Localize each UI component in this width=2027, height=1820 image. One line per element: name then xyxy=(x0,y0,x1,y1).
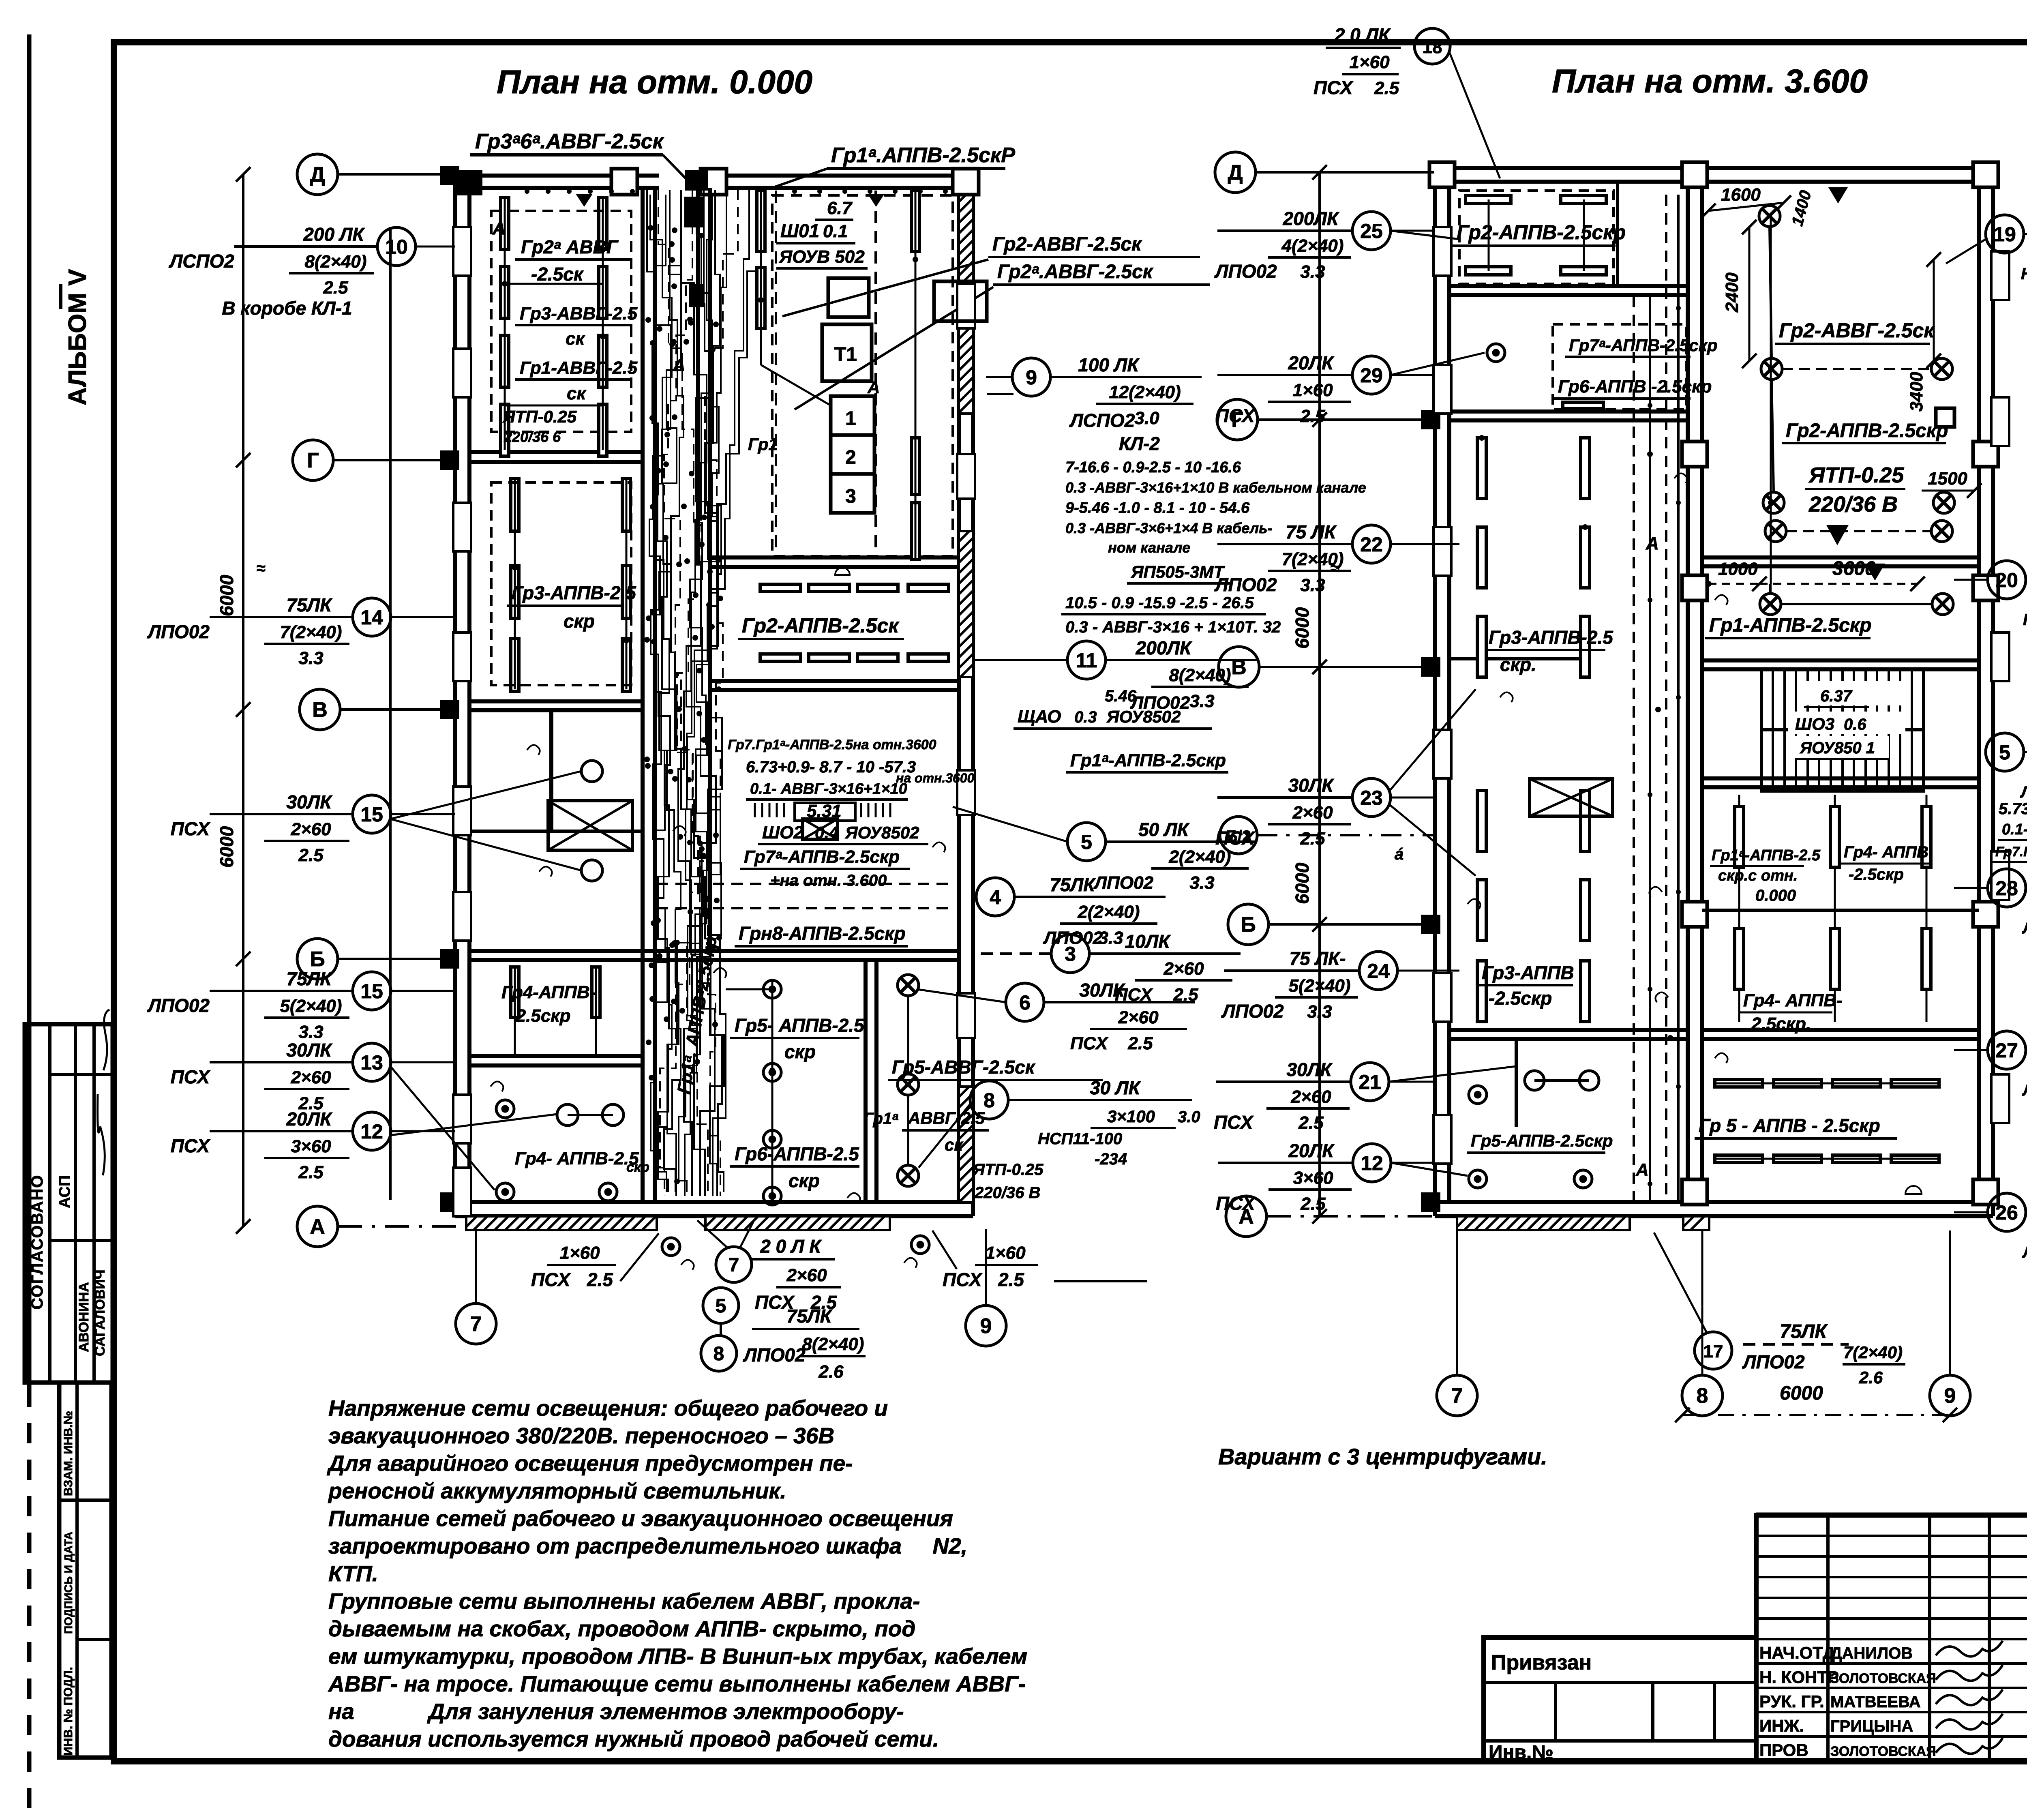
svg-text:А: А xyxy=(867,378,880,397)
plan1 cable drop triangles xyxy=(576,194,593,207)
svg-text:Грн8-АППВ-2.5скр: Грн8-АППВ-2.5скр xyxy=(739,923,906,944)
svg-text:6000: 6000 xyxy=(216,826,237,868)
svg-text:3.3: 3.3 xyxy=(1300,262,1325,282)
svg-text:2.5: 2.5 xyxy=(298,845,324,865)
svg-text:220/36 В: 220/36 В xyxy=(974,1184,1040,1202)
svg-text:75ЛК: 75ЛК xyxy=(286,968,332,989)
svg-text:100 ЛК: 100 ЛК xyxy=(1078,354,1140,375)
plan2 horizontal walls left side xyxy=(1449,284,1688,288)
plan1 right wall hatch xyxy=(959,191,973,414)
left margin line xyxy=(27,34,32,1387)
svg-text:запроектировано от распредел: запроектировано от распределительного шк… xyxy=(328,1533,967,1558)
plan2 left room lamp columns upper xyxy=(1477,438,1486,499)
svg-text:5: 5 xyxy=(1081,831,1092,853)
plan1 bars room row2 xyxy=(760,654,801,661)
svg-text:0.3: 0.3 xyxy=(1074,708,1097,726)
svg-text:7: 7 xyxy=(470,1312,482,1336)
svg-text:НСПИ-100·: НСПИ-100· xyxy=(2023,611,2027,629)
plan1 left dimension line xyxy=(242,174,244,1226)
plan2 callout 26 xyxy=(1988,1193,2026,1231)
svg-text:Гр1-АВВГ-2.5: Гр1-АВВГ-2.5 xyxy=(520,358,638,378)
plan1 bars room row1 xyxy=(760,584,801,592)
svg-text:2(2×40): 2(2×40) xyxy=(1169,847,1231,867)
plan1 dashed distribution lines xyxy=(657,883,949,885)
svg-text:ДАНИЛОВ: ДАНИЛОВ xyxy=(1830,1644,1913,1662)
svg-text:Гр2-АППВ-2.5ск: Гр2-АППВ-2.5ск xyxy=(742,614,900,637)
svg-text:28: 28 xyxy=(1995,877,2018,900)
plan1 outer walls xyxy=(453,176,457,1216)
plan1 room B lamp wires xyxy=(514,478,516,689)
svg-text:3×100: 3×100 xyxy=(1107,1107,1155,1126)
svg-text:11: 11 xyxy=(1076,649,1097,672)
svg-text:ПСХ: ПСХ xyxy=(1215,827,1256,849)
plan1 top wall cable dots xyxy=(525,189,529,194)
svg-text:Привязан: Привязан xyxy=(1491,1651,1592,1674)
svg-text:ГРИЦЫНА: ГРИЦЫНА xyxy=(1830,1717,1913,1735)
svg-text:19: 19 xyxy=(1993,223,2016,246)
plan1 callout 13 xyxy=(210,1061,353,1063)
svg-text:В: В xyxy=(1231,656,1247,679)
plan1 room A lamp wires xyxy=(504,197,506,450)
plan1 callout 6 xyxy=(1044,1001,1195,1003)
svg-text:75ЛК: 75ЛК xyxy=(1780,1321,1828,1342)
svg-text:ЯОУ850 1: ЯОУ850 1 xyxy=(1800,739,1875,757)
svg-text:План на отм. 0.000: План на отм. 0.000 xyxy=(497,64,812,101)
svg-text:КТП.: КТП. xyxy=(328,1561,378,1586)
svg-text:3.3: 3.3 xyxy=(1300,575,1325,595)
svg-text:А: А xyxy=(1635,1160,1649,1180)
svg-text:7: 7 xyxy=(729,1254,739,1276)
svg-text:План на отм. 3.600: План на отм. 3.600 xyxy=(1552,63,1868,100)
svg-text:А: А xyxy=(310,1215,325,1239)
svg-text:ПСХ: ПСХ xyxy=(1214,1112,1254,1133)
svg-text:9: 9 xyxy=(1026,366,1037,389)
svg-text:Гр3-АППВ: Гр3-АППВ xyxy=(1482,962,1574,983)
svg-text:27: 27 xyxy=(1995,1039,2018,1062)
svg-text:РУК. ГР.: РУК. ГР. xyxy=(1759,1692,1824,1711)
svg-text:26: 26 xyxy=(1995,1201,2018,1224)
plan1 callout 12 xyxy=(210,1130,353,1132)
svg-text:7(2×40): 7(2×40) xyxy=(1282,549,1344,569)
svg-text:ЛСПО2: ЛСПО2 xyxy=(1069,410,1135,431)
plan2 bottom-left room symbols xyxy=(1469,1086,1487,1104)
svg-text:ПСХ: ПСХ xyxy=(531,1269,571,1290)
plan1 room2 lamps xyxy=(511,478,519,531)
svg-text:á: á xyxy=(1395,845,1403,863)
svg-text:Гр4- АППВ-: Гр4- АППВ- xyxy=(1743,990,1843,1010)
svg-text:30ЛК: 30ЛК xyxy=(286,1040,332,1061)
svg-text:ЗОЛОТОВСКАЯ: ЗОЛОТОВСКАЯ xyxy=(1830,1744,1936,1759)
svg-text:ск: ск xyxy=(567,384,587,403)
svg-text:эвакуационного 380/220В. перен: эвакуационного 380/220В. переносного – 3… xyxy=(328,1423,834,1448)
plan1 room4 lamp wires xyxy=(514,967,516,1054)
plan1 vertical ref line xyxy=(389,227,392,1200)
svg-text:3.0: 3.0 xyxy=(1178,1108,1200,1126)
svg-text:8: 8 xyxy=(1697,1384,1708,1408)
plan1 axis V xyxy=(300,689,340,730)
plan1 axis A xyxy=(297,1206,338,1247)
svg-text:ЛПО02: ЛПО02 xyxy=(1093,873,1154,893)
svg-text:2.5: 2.5 xyxy=(323,278,348,298)
plan1 callout 3 xyxy=(1089,952,1241,955)
svg-text:ШО2: ШО2 xyxy=(762,823,804,842)
plan2 stairs room wall xyxy=(1702,658,1979,662)
svg-text:200ЛК: 200ЛК xyxy=(1283,208,1339,229)
plan2 room Gr4 lamps xyxy=(1735,928,1744,989)
svg-text:ЯОУВ 502: ЯОУВ 502 xyxy=(779,247,865,267)
svg-text:Гр3-АВВГ-2.5: Гр3-АВВГ-2.5 xyxy=(520,304,638,324)
plan1 wall window openings left xyxy=(453,227,471,276)
svg-text:3.3: 3.3 xyxy=(298,1022,323,1042)
plan1 bottom axis 7 xyxy=(475,1229,477,1303)
svg-text:50 ЛК: 50 ЛК xyxy=(1138,819,1190,840)
title block staff grid xyxy=(1756,1515,2027,1762)
svg-text:ЛПО02: ЛПО02 xyxy=(1221,1001,1284,1022)
svg-text:7-16.6 - 0.9-2.5 - 10 -16.6: 7-16.6 - 0.9-2.5 - 10 -16.6 xyxy=(1065,459,1241,476)
svg-text:3.0: 3.0 xyxy=(1134,408,1159,428)
svg-text:АСП: АСП xyxy=(56,1175,73,1208)
svg-text:Гр3-АППВ-2.5: Гр3-АППВ-2.5 xyxy=(512,582,636,603)
svg-text:3.3: 3.3 xyxy=(1307,1002,1332,1022)
plan1 small circ symbols bottom xyxy=(662,1238,680,1256)
svg-text:-2.5скр: -2.5скр xyxy=(1489,988,1552,1009)
plan2 callout 12 xyxy=(1218,1162,1353,1164)
plan2 callout 21 xyxy=(1216,1080,1351,1083)
svg-text:24: 24 xyxy=(1367,960,1390,982)
svg-text:2.5скр.: 2.5скр. xyxy=(1751,1014,1811,1034)
plan2 bottom callout 17 xyxy=(1695,1332,1732,1369)
plan1 bottom mid wires xyxy=(771,981,774,1198)
plan1 bottom callout 8 xyxy=(701,1336,737,1371)
svg-text:Гр4- АППВ-2.5: Гр4- АППВ-2.5 xyxy=(515,1149,639,1168)
svg-text:6.7: 6.7 xyxy=(827,198,853,218)
svg-text:2×60: 2×60 xyxy=(290,819,331,839)
plan2 top right room lamps xyxy=(1759,206,1780,227)
plan2 left room lamp columns lower xyxy=(1477,791,1486,851)
svg-text:дования используется нужный: дования используется нужный провод рабоч… xyxy=(328,1726,939,1751)
svg-text:2×60: 2×60 xyxy=(786,1265,827,1285)
svg-text:ЯТП-0.25: ЯТП-0.25 xyxy=(973,1161,1043,1179)
plan1 left callout extension lines xyxy=(416,246,455,248)
svg-text:2×60: 2×60 xyxy=(1290,1087,1331,1107)
plan1 room Gr5 ceiling lamps xyxy=(763,980,781,998)
plan1 callout 15 xyxy=(210,813,353,815)
plan1 axis B xyxy=(297,939,338,979)
plan2 crossed box xyxy=(1530,779,1613,816)
svg-text:КЛ-2: КЛ-2 xyxy=(1119,433,1160,454)
svg-text:7: 7 xyxy=(1451,1384,1463,1408)
svg-text:А: А xyxy=(673,356,685,375)
svg-text:Гр6-АППВ-2.5: Гр6-АППВ-2.5 xyxy=(735,1143,859,1164)
plan1 interior wall corridor right xyxy=(696,188,700,566)
plan1 callout 10 xyxy=(234,245,377,248)
svg-text:75 ЛК-: 75 ЛК- xyxy=(1289,948,1346,969)
plan1 interior walls horizontal left rooms xyxy=(469,450,643,454)
plan1 bottom callout 7 small xyxy=(716,1247,752,1282)
svg-text:Для аварийного освещения пр: Для аварийного освещения предусмотрен пе… xyxy=(327,1451,853,1476)
svg-text:Питание сетей рабочего и эваку: Питание сетей рабочего и эвакуационного … xyxy=(328,1506,953,1531)
svg-text:Ш01: Ш01 xyxy=(780,220,819,241)
svg-text:А: А xyxy=(492,219,506,238)
svg-text:Гр5-АВВГ-2.5ск: Гр5-АВВГ-2.5ск xyxy=(892,1057,1036,1078)
svg-text:Гр1ᵃ-АППВ-2.5: Гр1ᵃ-АППВ-2.5 xyxy=(1712,847,1821,864)
svg-text:75ЛК: 75ЛК xyxy=(1050,874,1096,895)
svg-text:2×60: 2×60 xyxy=(290,1068,331,1087)
svg-text:4(2×40): 4(2×40) xyxy=(1281,236,1344,256)
svg-text:Гр1ᵃ.АППВ-2.5скР: Гр1ᵃ.АППВ-2.5скР xyxy=(831,144,1015,167)
svg-text:Гр5- АППВ-2.5: Гр5- АППВ-2.5 xyxy=(735,1015,865,1036)
plan1 bottom rooms divider xyxy=(864,960,868,1202)
svg-text:ИНВ. № ПОДЛ.: ИНВ. № ПОДЛ. xyxy=(62,1667,75,1756)
svg-text:17: 17 xyxy=(1703,1342,1723,1361)
plan1 interior wall corridor left xyxy=(641,188,645,1202)
svg-text:30ЛК: 30ЛК xyxy=(1286,1059,1333,1080)
plan1 KTP transformer T1 xyxy=(822,324,872,381)
svg-text:ПСХ: ПСХ xyxy=(171,818,211,839)
svg-text:скр: скр xyxy=(784,1041,816,1062)
plan1 left wall axis columns xyxy=(440,166,459,185)
svg-text:200ЛК: 200ЛК xyxy=(1136,637,1192,658)
svg-text:6000: 6000 xyxy=(1292,862,1313,904)
svg-text:8(2×40): 8(2×40) xyxy=(802,1334,864,1354)
svg-text:ЛПО02: ЛПО02 xyxy=(1214,261,1277,282)
svg-text:6000: 6000 xyxy=(1780,1383,1823,1404)
svg-text:21: 21 xyxy=(1358,1071,1381,1093)
plan1 KTP transformer block small xyxy=(828,278,869,317)
plan1 callout 5 xyxy=(1106,840,1257,843)
svg-text:30ЛК: 30ЛК xyxy=(286,791,332,812)
svg-text:20ЛК: 20ЛК xyxy=(1288,352,1334,373)
plan2 dimension line xyxy=(1318,172,1321,1216)
svg-text:0.1- АВВГ-3×16+1×10: 0.1- АВВГ-3×16+1×10 xyxy=(2002,821,2027,838)
svg-text:АВВГ- на тросе. Питающие се: АВВГ- на тросе. Питающие сети выполнены … xyxy=(328,1671,1026,1696)
plan1 KTP dashed room outline xyxy=(772,195,953,556)
svg-text:2.6: 2.6 xyxy=(1859,1368,1883,1387)
svg-text:ЯОУ8502: ЯОУ8502 xyxy=(1106,707,1181,726)
svg-text:7(2×40): 7(2×40) xyxy=(280,622,342,642)
svg-text:В коробе КЛ-1: В коробе КЛ-1 xyxy=(222,298,352,319)
svg-text:НАЧ.ОТД: НАЧ.ОТД xyxy=(1759,1643,1835,1662)
plan1 KTP lamp chains xyxy=(757,191,765,251)
svg-text:на Для зануления: на Для зануления элементов электрообору- xyxy=(328,1699,904,1724)
plan2 wall window openings xyxy=(1433,227,1451,276)
svg-text:22: 22 xyxy=(1360,533,1383,556)
svg-text:2.5: 2.5 xyxy=(587,1269,613,1290)
svg-text:2(2×40): 2(2×40) xyxy=(1078,902,1140,922)
plan1 washroom partitions xyxy=(549,710,553,831)
svg-text:30ЛК: 30ЛК xyxy=(1079,980,1125,1001)
svg-text:3400: 3400 xyxy=(1907,372,1926,412)
plan1 room operatorskaya lamps col1 xyxy=(501,197,509,249)
plan2 outer walls xyxy=(1433,168,1437,1216)
plan2 lamp row y1310 xyxy=(1765,521,1786,542)
svg-text:ПСХ: ПСХ xyxy=(1215,405,1256,426)
svg-text:Гр4- АППВ: Гр4- АППВ xyxy=(1844,843,1928,861)
plan2 horizontal walls right side xyxy=(1702,555,1979,560)
svg-text:-2.5скр: -2.5скр xyxy=(1849,866,1904,883)
svg-text:ЛПО02: ЛПО02 xyxy=(2020,783,2027,801)
plan1 washroom circles xyxy=(581,761,602,782)
plan2 small rooms mid xyxy=(1487,344,1505,362)
svg-text:АЛЬБОМ V: АЛЬБОМ V xyxy=(64,269,92,405)
svg-text:на отн.3600: на отн.3600 xyxy=(896,771,975,785)
svg-text:8: 8 xyxy=(984,1089,995,1112)
plan1 bottom axis 9 xyxy=(985,1229,987,1306)
svg-text:-2.5ск: -2.5ск xyxy=(531,264,584,285)
svg-text:Инв.№: Инв.№ xyxy=(1489,1742,1553,1763)
plan2 staircase xyxy=(1761,669,1924,791)
svg-text:2400: 2400 xyxy=(1722,272,1742,313)
svg-text:Гр2-АППВ-2.5скр: Гр2-АППВ-2.5скр xyxy=(1457,221,1626,244)
svg-text:2.5: 2.5 xyxy=(998,1269,1024,1290)
svg-text:ЩАО: ЩАО xyxy=(1018,707,1061,727)
svg-text:ЯП505-3МТ: ЯП505-3МТ xyxy=(1131,562,1225,581)
svg-text:9-5.46 -1.0 - 8.1 - 10 - 54.6: 9-5.46 -1.0 - 8.1 - 10 - 54.6 xyxy=(1065,499,1250,517)
svg-text:10ЛК: 10ЛК xyxy=(1125,931,1171,952)
svg-text:Г: Г xyxy=(307,449,319,472)
svg-text:Гр1ᵃ-АППВ-2.5скр: Гр1ᵃ-АППВ-2.5скр xyxy=(1070,750,1226,770)
svg-text:200 ЛК: 200 ЛК xyxy=(303,224,365,245)
plan2 right room vertical wire xyxy=(1770,216,1772,584)
svg-text:2 0 ЛК: 2 0 ЛК xyxy=(1334,24,1391,45)
svg-text:5(2×40): 5(2×40) xyxy=(1289,976,1351,996)
plan2 bell symbol xyxy=(1905,1186,1922,1194)
svg-text:75ЛК: 75ЛК xyxy=(286,594,332,615)
svg-text:30ЛК: 30ЛК xyxy=(1288,775,1334,796)
svg-text:7(2×40): 7(2×40) xyxy=(1843,1343,1903,1362)
svg-text:ЛПО02: ЛПО02 xyxy=(147,621,210,642)
plan2 room Gr1a lamps xyxy=(1735,806,1744,867)
plan1 interior walls horizontal right rooms xyxy=(710,555,959,560)
svg-text:Гр7ᵃ-АППВ-2.5скр: Гр7ᵃ-АППВ-2.5скр xyxy=(744,847,900,867)
svg-text:2 0 Л К: 2 0 Л К xyxy=(760,1236,822,1257)
plan2 axis A xyxy=(1226,1196,1266,1237)
svg-text:220/36 В: 220/36 В xyxy=(1808,492,1898,517)
plan2 left wall axis columns xyxy=(1421,410,1440,429)
svg-text:ЯТП-0.25: ЯТП-0.25 xyxy=(1808,463,1904,487)
svg-text:Б: Б xyxy=(1241,913,1256,937)
plan2 top room wires xyxy=(1488,199,1490,271)
svg-text:НСП11-100: НСП11-100 xyxy=(1038,1130,1122,1148)
svg-text:Д: Д xyxy=(310,163,325,187)
plan1 bottom-left room symbols xyxy=(496,1100,514,1118)
svg-text:2.5: 2.5 xyxy=(1300,406,1325,426)
plan2 axis D xyxy=(1215,152,1256,193)
plan1 KTP cells 1 2 3 xyxy=(831,396,874,435)
svg-text:А: А xyxy=(1646,534,1659,553)
svg-text:скр: скр xyxy=(626,1160,649,1175)
svg-text:+на отн. 3.600: +на отн. 3.600 xyxy=(770,872,887,890)
svg-text:0.6: 0.6 xyxy=(1844,716,1866,733)
svg-text:Гр2-АВВГ-2.5ск: Гр2-АВВГ-2.5ск xyxy=(1779,319,1935,342)
svg-text:6: 6 xyxy=(1019,991,1031,1014)
plan2 room Gr1a lamp wires xyxy=(1738,795,1740,1022)
svg-text:12: 12 xyxy=(1361,1152,1383,1175)
svg-text:Гр2-АВВГ-2.5ск: Гр2-АВВГ-2.5ск xyxy=(992,234,1142,255)
svg-text:ПСХ: ПСХ xyxy=(1313,77,1354,98)
plan2 hooks xyxy=(1715,595,1728,605)
plan1 corridor junction dots xyxy=(650,504,656,510)
svg-text:Гр1ᵃ: Гр1ᵃ xyxy=(864,1110,898,1128)
svg-text:скр: скр xyxy=(564,611,595,632)
svg-text:5(2×40): 5(2×40) xyxy=(280,996,342,1016)
plan1 bottom wall hatch xyxy=(466,1216,657,1230)
svg-text:13: 13 xyxy=(360,1051,383,1074)
svg-text:18: 18 xyxy=(1423,37,1442,57)
svg-text:Гр2-АППВ-2.5скр: Гр2-АППВ-2.5скр xyxy=(1786,420,1948,442)
svg-text:Гр7.Гр1ᵃ-АППВ-2.5ск.,+0.000: Гр7.Гр1ᵃ-АППВ-2.5ск.,+0.000 xyxy=(1995,844,2027,860)
svg-text:2.6: 2.6 xyxy=(818,1362,844,1382)
plan2 bottom dim line xyxy=(1682,1414,1950,1416)
plan1 wall window openings right xyxy=(957,284,975,328)
svg-text:-234: -234 xyxy=(1095,1150,1127,1168)
svg-text:реносной аккумуляторный све: реносной аккумуляторный светильник. xyxy=(328,1478,786,1503)
svg-text:23: 23 xyxy=(1360,787,1383,809)
svg-text:ем штукатурки, проводом ЛПВ-: ем штукатурки, проводом ЛПВ- В Винип-ых … xyxy=(328,1644,1027,1669)
svg-text:0.1- АВВГ-3×16+1×10: 0.1- АВВГ-3×16+1×10 xyxy=(750,780,907,797)
svg-text:0.3 -АВВГ-3×6+1×4 В кабель-: 0.3 -АВВГ-3×6+1×4 В кабель- xyxy=(1065,520,1273,536)
plan2 callout 29 xyxy=(1217,374,1352,376)
plan2 corridor wall xyxy=(1686,182,1690,1202)
svg-text:≈: ≈ xyxy=(257,560,266,577)
soglasovano stamp table xyxy=(25,1024,113,1383)
svg-text:СОГЛАСОВАНО: СОГЛАСОВАНО xyxy=(28,1175,46,1310)
plan1 bottom callout 5 xyxy=(703,1288,739,1323)
plan1 extra corridor density xyxy=(649,195,672,1192)
plan1 axis D xyxy=(297,154,338,195)
svg-text:Гр7.Гр1ᵃ-АППВ-2.5на отн.3600: Гр7.Гр1ᵃ-АППВ-2.5на отн.3600 xyxy=(728,737,936,752)
svg-text:1600: 1600 xyxy=(1721,185,1761,205)
plan1 right callout leaders into plan xyxy=(953,807,1067,842)
plan1 bottom right room lamps xyxy=(898,975,919,996)
svg-text:3.3: 3.3 xyxy=(298,648,323,668)
plan2 axis G xyxy=(1217,399,1258,440)
svg-text:ск: ск xyxy=(945,1135,963,1154)
svg-text:1500: 1500 xyxy=(1928,469,1967,489)
svg-text:3.3: 3.3 xyxy=(1189,691,1214,711)
plan2 mid room lamps xyxy=(1760,594,1781,615)
plan1 callout 9 KTP xyxy=(1050,376,1202,378)
plan2 axis V xyxy=(1219,647,1259,687)
plan2 bottom axis 9 xyxy=(1949,1230,1951,1375)
plan2 corridor wiring xyxy=(1633,296,1635,1200)
svg-text:30 ЛК: 30 ЛК xyxy=(1090,1077,1141,1098)
svg-text:8: 8 xyxy=(714,1343,724,1365)
plan2 callout 24 xyxy=(1224,969,1359,972)
svg-text:3: 3 xyxy=(1065,943,1076,965)
plan1 room B dashed outline xyxy=(491,482,631,685)
plan2 axis B2 xyxy=(1220,817,1257,854)
svg-text:ПСХ: ПСХ xyxy=(171,1066,211,1087)
svg-text:2×60: 2×60 xyxy=(1118,1008,1159,1027)
svg-text:Групповые сети выполнены ка: Групповые сети выполнены кабелем АВВГ, п… xyxy=(328,1588,920,1614)
svg-text:ЛПО02: ЛПО02 xyxy=(147,995,210,1016)
plan1 KTP equipment box right xyxy=(934,281,987,321)
svg-text:1×60: 1×60 xyxy=(559,1243,600,1263)
svg-text:15: 15 xyxy=(360,803,383,826)
svg-text:10: 10 xyxy=(385,236,408,258)
svg-text:ЛПО02: ЛПО02 xyxy=(743,1344,806,1366)
svg-text:2.5: 2.5 xyxy=(1374,78,1399,98)
svg-text:0.1: 0.1 xyxy=(823,221,848,241)
svg-text:12(2×40): 12(2×40) xyxy=(1109,382,1181,402)
svg-text:9: 9 xyxy=(1944,1384,1956,1408)
svg-text:29: 29 xyxy=(1360,364,1383,387)
svg-text:ПСХ: ПСХ xyxy=(1216,1193,1256,1214)
svg-text:ПСХ: ПСХ xyxy=(1070,1033,1109,1053)
svg-text:ИНЖ.: ИНЖ. xyxy=(1759,1716,1804,1735)
plan2 bottom room bar row2 xyxy=(1715,1155,1763,1162)
